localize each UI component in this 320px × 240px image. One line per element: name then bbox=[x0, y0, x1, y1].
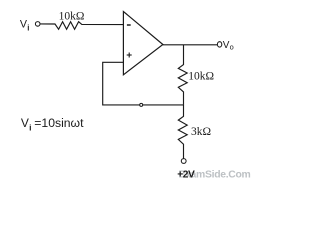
svg-text:Vo: Vo bbox=[223, 40, 234, 51]
svg-text:Vi: Vi bbox=[20, 19, 30, 33]
svg-text:10kΩ: 10kΩ bbox=[188, 70, 214, 82]
svg-text:Vi=10sinωt: Vi=10sinωt bbox=[21, 116, 84, 133]
svg-text:10kΩ: 10kΩ bbox=[59, 10, 85, 22]
svg-text:+2V: +2V bbox=[177, 169, 195, 180]
svg-text:3kΩ: 3kΩ bbox=[191, 126, 211, 138]
